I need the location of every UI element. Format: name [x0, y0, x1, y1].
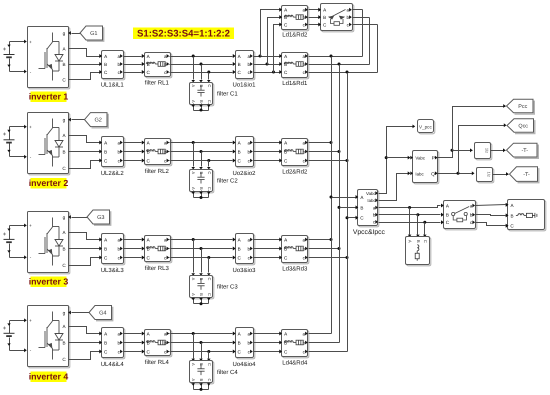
svg-text:B: B [199, 293, 204, 296]
wire Ld4&Rd4 out phase b to bus corner [309, 342, 340, 344]
From tag G4 [89, 306, 112, 320]
wire hold2 to -T- tag [493, 174, 509, 176]
filter RL1 [146, 54, 172, 78]
svg-text:C: C [207, 278, 212, 281]
goto tag -T- lower [510, 167, 538, 182]
svg-text:g: g [63, 32, 66, 37]
junction tap to filter C2 phase a [192, 141, 195, 144]
svg-text:Uo4&io4: Uo4&io4 [232, 361, 256, 368]
svg-text:b: b [470, 213, 473, 218]
svg-text:-T-: -T- [523, 172, 530, 178]
svg-text:A: A [191, 100, 196, 103]
svg-text:a: a [118, 331, 121, 336]
svg-text:A: A [191, 187, 196, 190]
wire UL1 c to filter RL1 [124, 72, 142, 74]
goto tag Pcc [507, 99, 534, 112]
svg-text:a: a [164, 237, 167, 242]
svg-text:B: B [199, 187, 204, 190]
svg-text:B: B [511, 213, 514, 218]
svg-text:C: C [207, 171, 212, 174]
filter C3 [191, 277, 214, 299]
svg-text:C: C [207, 293, 212, 296]
wire UL2 c to filter RL2 [124, 160, 142, 162]
wire UL2 a to filter RL2 [124, 142, 142, 144]
svg-text:a: a [248, 140, 251, 145]
svg-text:B: B [238, 340, 241, 345]
wire G1 to gate g [72, 33, 81, 35]
measurement block UL3&iL3 [103, 235, 125, 265]
svg-text:B: B [416, 240, 421, 243]
wire Uo1 c to Ld1&Rd1 [254, 72, 280, 74]
filter C2 neutral star wire [193, 191, 195, 198]
wire filter RL1 a to Uo1 [170, 56, 233, 58]
svg-text:Ld1&Rd1: Ld1&Rd1 [282, 80, 308, 87]
svg-text:g: g [63, 119, 66, 124]
wire inverter4 C to UL4 [69, 352, 100, 360]
wire inverter1 A to UL1 [69, 49, 100, 57]
measurement block UL2&iL2 [103, 138, 125, 168]
svg-text:A: A [191, 363, 196, 366]
wire Ld2&Rd2 out phase c to bus [309, 160, 348, 162]
svg-text:Ld4&Rd4: Ld4&Rd4 [282, 360, 308, 367]
svg-text:UL3&iL3: UL3&iL3 [101, 267, 125, 274]
junction tap to filter C1 phase b [200, 63, 203, 66]
svg-text:C: C [207, 363, 212, 366]
svg-text:UL1&iL1: UL1&iL1 [101, 82, 125, 89]
svg-text:B: B [446, 213, 449, 218]
junction tap to filter C3 phase c [207, 256, 210, 259]
wire UL4 b to filter RL4 [124, 342, 142, 344]
svg-text:G1: G1 [90, 31, 97, 37]
filter RL4 [146, 331, 172, 357]
svg-text:V_pcc: V_pcc [419, 125, 432, 130]
svg-text:Uo2&io2: Uo2&io2 [232, 170, 256, 177]
svg-text:B: B [104, 246, 107, 251]
svg-text:B: B [62, 150, 65, 155]
svg-text:Vabc: Vabc [415, 156, 425, 161]
svg-text:filter C2: filter C2 [217, 177, 238, 184]
svg-text:B: B [199, 84, 204, 87]
wire inverter2 C to UL2 [69, 161, 100, 169]
svg-text:a: a [248, 54, 251, 59]
svg-text:b: b [118, 149, 121, 154]
svg-text:G2: G2 [94, 118, 101, 124]
three-phase breaker 1 [322, 5, 354, 32]
filter C1 neutral star wire [193, 104, 195, 111]
wire Uo3 c to Ld3&Rd3 [254, 257, 280, 259]
svg-text:B: B [104, 62, 107, 67]
svg-text:+: + [29, 39, 32, 44]
svg-text:1/z: 1/z [485, 148, 490, 153]
measurement block Vpcc&Ipcc [359, 191, 379, 227]
svg-text:b: b [248, 62, 251, 67]
svg-text:+: + [3, 232, 7, 238]
wire Q to Qcc and hold block [438, 173, 474, 175]
DC voltage source 1 [10, 41, 25, 43]
wire inverter1 C to UL1 [69, 73, 100, 80]
three-phase series RL load block [509, 201, 546, 231]
svg-text:G4: G4 [99, 311, 106, 317]
junction tap to filter C1 phase c [207, 71, 210, 74]
filter RL3 [146, 237, 172, 263]
wire Ld3&Rd3 out phase c to bus [309, 257, 348, 259]
svg-text:a: a [164, 140, 167, 145]
inverter 2 (universal bridge) [29, 114, 70, 175]
wire filter RL3 a to Uo3 [170, 239, 233, 241]
svg-text:a: a [303, 237, 306, 242]
wire filter RL1 b to Uo1 [170, 64, 233, 66]
svg-text:B: B [199, 171, 204, 174]
three-phase breaker 2 [445, 202, 477, 230]
measurement block UL1&iL1 [103, 52, 125, 80]
inverter 4 (universal bridge) [29, 307, 70, 368]
wire Uo4 b to Ld4&Rd4 [254, 342, 280, 344]
filter C4 neutral star wire [193, 383, 195, 390]
svg-text:+: + [3, 47, 7, 53]
label inverter 4 [31, 372, 67, 383]
wire UL3 b to filter RL3 [124, 248, 142, 250]
junction tap to filter C4 phase a [192, 332, 195, 335]
wires breaker 1 outputs down to row1 bus [353, 9, 363, 11]
zero-order hold block 2 [478, 169, 494, 183]
wire UL3 c to filter RL3 [124, 257, 142, 259]
wires Ld1&Rd2 to breaker 1 [309, 9, 319, 11]
svg-text:Ld1&Rd2: Ld1&Rd2 [282, 32, 308, 39]
svg-text:b: b [118, 340, 121, 345]
svg-text:filter C1: filter C1 [217, 90, 238, 97]
filter C4 [191, 362, 214, 384]
DC voltage source 2 [10, 126, 25, 128]
filter C2 [191, 171, 214, 193]
svg-text:C: C [207, 187, 212, 190]
svg-text:a: a [164, 331, 167, 336]
svg-text:a: a [118, 54, 121, 59]
svg-text:b: b [118, 62, 121, 67]
svg-text:inverter 1: inverter 1 [29, 92, 69, 102]
wire Uo3 a to Ld3&Rd3 [254, 239, 280, 241]
svg-text:Qcc: Qcc [518, 123, 528, 129]
svg-text:+: + [29, 125, 32, 130]
junction tap to filter C3 phase b [200, 247, 203, 250]
svg-text:B: B [62, 62, 65, 67]
wire Uo4 c to Ld4&Rd4 [254, 351, 280, 353]
svg-text:filter C3: filter C3 [217, 284, 238, 291]
svg-text:B: B [62, 341, 65, 346]
wire UL1 a to filter RL1 [124, 56, 142, 58]
From tag G3 [87, 210, 110, 224]
impedance block Ld3&amp;Rd3 [283, 237, 309, 264]
svg-text:b: b [248, 340, 251, 345]
svg-text:1/z: 1/z [487, 172, 492, 177]
svg-text:A: A [191, 278, 196, 281]
svg-text:Iabc: Iabc [415, 171, 424, 176]
wire Ld2&Rd2 out phase b to bus [309, 151, 340, 153]
svg-text:g: g [63, 216, 66, 221]
measurement block Uo2&io2 [237, 138, 255, 168]
svg-text:b: b [347, 15, 350, 20]
wire Vabc to V_pcc goto and power block [379, 127, 415, 194]
wire inverter4 B to UL4 [69, 342, 100, 344]
svg-text:B: B [104, 149, 107, 154]
bus taps to Vpcc&Ipcc inputs [330, 196, 333, 199]
measurement block Uo3&io3 [237, 235, 255, 265]
svg-text:inverter 4: inverter 4 [29, 372, 69, 382]
wire UL4 a to filter RL4 [124, 333, 142, 335]
wire Uo2 b to Ld2&Rd2 [254, 151, 280, 153]
wire G2 to gate g [72, 119, 85, 121]
junction dots bypass risers (row 1) [259, 55, 262, 58]
filter C1 [191, 84, 214, 106]
wires breaker 2 to RL load [476, 205, 506, 206]
svg-text:a: a [118, 140, 121, 145]
impedance block Ld2&amp;Rd2 [283, 140, 309, 167]
svg-text:A: A [191, 379, 196, 382]
svg-text:Uo3&io3: Uo3&io3 [232, 267, 256, 274]
wire Ld4&Rd4 out phase c to bus corner [309, 351, 348, 353]
svg-text:a: a [470, 203, 473, 208]
svg-text:C: C [207, 84, 212, 87]
svg-text:A: A [191, 293, 196, 296]
wire Uo3 b to Ld3&Rd3 [254, 248, 280, 250]
label inverter 2 [31, 178, 67, 189]
wire Uo4 a to Ld4&Rd4 [254, 333, 280, 335]
svg-text:B: B [104, 340, 107, 345]
three-phase load block (vertical RLC) [407, 238, 431, 266]
svg-text:a: a [303, 8, 306, 13]
zero-order hold block 1 [476, 144, 492, 160]
wire P to Pcc and hold block [438, 151, 453, 158]
svg-text:a: a [347, 8, 350, 13]
annotation title S1:S2:S3:S4=1:1:2:2 [133, 28, 234, 40]
svg-text:B: B [323, 15, 326, 20]
svg-text:C: C [207, 100, 212, 103]
wire G4 to gate g [72, 312, 90, 314]
svg-text:Ld2&Rd2: Ld2&Rd2 [282, 169, 308, 176]
wire UL4 c to filter RL4 [124, 351, 142, 353]
svg-text:B: B [199, 363, 204, 366]
junction dots down to local load [408, 206, 411, 209]
svg-text:Vabc: Vabc [366, 191, 376, 196]
svg-text:B: B [199, 379, 204, 382]
junction tap to filter C1 phase a [192, 55, 195, 58]
wire Ld3&Rd3 out phase a to bus [309, 239, 332, 241]
wire Ld1&Rd1 out phase a to bus + bypass return [309, 56, 363, 58]
wire UL3 a to filter RL3 [124, 239, 142, 241]
junction tap to filter C4 phase b [200, 341, 203, 344]
svg-text:g: g [63, 312, 66, 317]
svg-text:UL4&iL4: UL4&iL4 [101, 361, 125, 368]
impedance block Ld4&amp;Rd4 [283, 331, 309, 358]
svg-text:filter RL2: filter RL2 [145, 168, 170, 175]
svg-text:B: B [199, 278, 204, 281]
svg-text:a: a [303, 54, 306, 59]
svg-text:a: a [118, 237, 121, 242]
junction tap to filter C3 phase a [192, 238, 195, 241]
svg-text:P: P [432, 156, 435, 162]
wire inverter1 B to UL1 [69, 64, 100, 66]
wire UL2 b to filter RL2 [124, 151, 142, 153]
PQ power measurement block [414, 152, 439, 184]
svg-text:a: a [248, 237, 251, 242]
svg-text:B: B [238, 62, 241, 67]
wire UL1 b to filter RL1 [124, 64, 142, 66]
wire Ld2&Rd2 out phase a to bus [309, 142, 332, 144]
wire filter RL2 b to Uo2 [170, 151, 233, 153]
svg-text:B: B [199, 100, 204, 103]
wire inverter2 A to UL2 [69, 136, 100, 143]
From tag G1 [80, 26, 103, 40]
inverter 1 (universal bridge) [29, 28, 70, 89]
svg-text:inverter 3: inverter 3 [29, 277, 69, 287]
svg-text:Uo1&io1: Uo1&io1 [232, 82, 256, 89]
wire Uo1 a to Ld1&Rd1 [254, 56, 280, 58]
measurement block Uo4&io4 [237, 329, 255, 359]
wire filter RL3 c to Uo3 [170, 257, 233, 259]
wire filter RL4 a to Uo4 [170, 333, 233, 335]
svg-text:+: + [3, 132, 7, 138]
svg-text:+: + [29, 318, 32, 323]
svg-text:a: a [303, 140, 306, 145]
wire Ld1&Rd1 out phase c to bus + bypass return [309, 72, 378, 74]
svg-text:C: C [207, 378, 212, 381]
DC voltage source 4 [10, 320, 25, 322]
svg-text:S1:S2:S3:S4=1:1:2:2: S1:S2:S3:S4=1:1:2:2 [137, 29, 230, 40]
label inverter 3 [31, 277, 67, 288]
wire Ld4&Rd4 out phase a to bus corner [309, 333, 332, 335]
filter C3 neutral star wire [193, 298, 195, 304]
svg-text:UL2&iL2: UL2&iL2 [101, 170, 125, 177]
svg-text:b: b [118, 246, 121, 251]
filter RL2 [146, 140, 172, 166]
wires Vpcc a,b,c to breaker 2 [379, 206, 441, 208]
svg-text:Q: Q [431, 171, 435, 177]
wire filter RL4 b to Uo4 [170, 342, 233, 344]
wire G3 to gate g [72, 217, 88, 219]
svg-text:Ld3&Rd3: Ld3&Rd3 [282, 266, 308, 273]
riser wires to Ld1&Rd2 [261, 10, 280, 57]
svg-text:filter RL4: filter RL4 [145, 359, 170, 366]
measurement block Uo1&io1 [237, 52, 255, 80]
svg-text:a: a [164, 54, 167, 59]
goto tag Qcc [507, 119, 534, 132]
svg-text:Vpcc&Ipcc: Vpcc&Ipcc [353, 229, 386, 236]
svg-text:B: B [238, 246, 241, 251]
svg-text:B: B [238, 149, 241, 154]
goto tag -T- upper [507, 143, 538, 157]
svg-text:b: b [248, 246, 251, 251]
svg-text:filter C4: filter C4 [217, 369, 238, 376]
PCC bus vertical lines [331, 57, 333, 334]
wire Ld1&Rd1 out phase b to bus + bypass return [309, 64, 370, 66]
svg-text:-T-: -T- [522, 148, 529, 154]
svg-text:+: + [3, 326, 7, 332]
svg-text:filter RL3: filter RL3 [145, 265, 170, 272]
goto tag V_pcc [419, 121, 435, 134]
inverter 3 (universal bridge) [29, 213, 70, 274]
DC voltage source 3 [10, 225, 25, 227]
wire filter RL4 c to Uo4 [170, 351, 233, 353]
junction tap to filter C4 phase c [207, 350, 210, 353]
From tag G2 [85, 113, 108, 127]
svg-text:filter RL1: filter RL1 [145, 80, 170, 87]
svg-text:a: a [303, 331, 306, 336]
measurement block UL4&iL4 [103, 329, 125, 359]
wire filter RL2 a to Uo2 [170, 142, 233, 144]
svg-text:inverter 2: inverter 2 [29, 178, 69, 188]
wire Uo2 c to Ld2&Rd2 [254, 160, 280, 162]
junction tap to filter C2 phase c [207, 159, 210, 162]
svg-text:Pcc: Pcc [518, 104, 527, 110]
svg-text:A: A [408, 240, 413, 243]
impedance block Ld1&Rd2 (bypass) [283, 7, 309, 31]
wire filter RL1 c to Uo1 [170, 72, 233, 74]
svg-text:G3: G3 [97, 215, 104, 221]
wire Iabc to power block [379, 174, 410, 201]
wire Uo1 b to Ld1&Rd1 [254, 64, 280, 66]
wire Ld3&Rd3 out phase b to bus [309, 248, 340, 250]
wire inverter3 C to UL3 [69, 258, 100, 266]
impedance block Ld1&amp;Rd1 [283, 54, 309, 79]
svg-text:+: + [29, 223, 32, 228]
wire hold1 to -T- tag [491, 150, 506, 152]
wire filter RL3 b to Uo3 [170, 248, 233, 250]
wire Uo2 a to Ld2&Rd2 [254, 142, 280, 144]
svg-text:b: b [248, 149, 251, 154]
svg-text:C: C [423, 240, 428, 243]
svg-text:B: B [62, 247, 65, 252]
wire inverter3 B to UL3 [69, 248, 100, 250]
svg-text:A: A [191, 171, 196, 174]
wire inverter4 A to UL4 [69, 327, 100, 334]
svg-text:a: a [248, 331, 251, 336]
wire filter RL2 c to Uo2 [170, 160, 233, 162]
junction tap to filter C2 phase b [200, 150, 203, 153]
wire inverter3 A to UL3 [69, 233, 100, 240]
svg-text:A: A [191, 84, 196, 87]
label inverter 1 [31, 92, 67, 103]
wire inverter2 B to UL2 [69, 151, 100, 153]
svg-text:B: B [360, 205, 363, 210]
svg-text:Iabc: Iabc [367, 198, 376, 203]
